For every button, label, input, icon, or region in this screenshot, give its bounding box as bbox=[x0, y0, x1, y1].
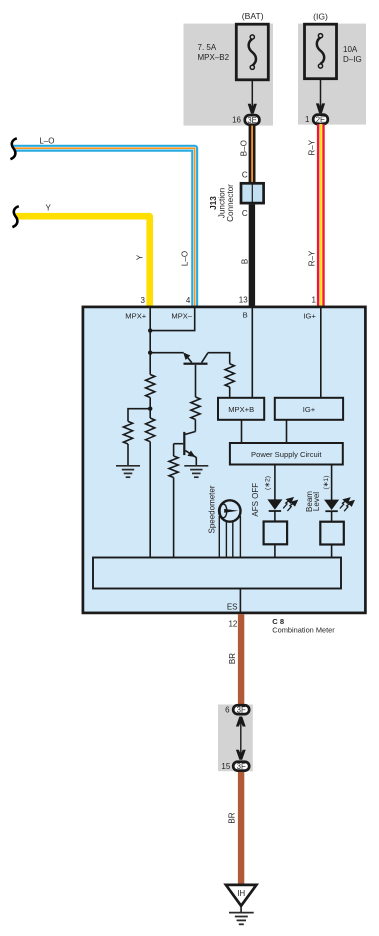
block Power Supply Circuit bbox=[230, 443, 343, 465]
wire ground stem bbox=[240, 906, 242, 912]
wire fuse F2 to connector 2E bbox=[320, 79, 322, 113]
svg-text:Power Supply Circuit: Power Supply Circuit bbox=[251, 450, 322, 459]
svg-text:Combination Meter: Combination Meter bbox=[272, 625, 335, 634]
wire Q1 collector to R4 bbox=[208, 353, 230, 364]
svg-text:R–Y: R–Y bbox=[308, 250, 317, 266]
svg-text:7. 5A: 7. 5A bbox=[198, 43, 217, 52]
speedometer gauge bbox=[219, 500, 240, 521]
svg-text:10A: 10A bbox=[343, 45, 358, 54]
resistor R1 (MPX+ upper) bbox=[146, 375, 155, 398]
wire B internal bbox=[251, 308, 253, 398]
svg-text:13: 13 bbox=[239, 296, 248, 305]
svg-text:IG+: IG+ bbox=[303, 405, 316, 414]
resistor R6 bbox=[169, 456, 178, 478]
ground IH triangle bbox=[226, 885, 257, 906]
wire Q2 base resistor R6 bbox=[173, 444, 175, 456]
node junction dot 1 bbox=[148, 328, 152, 332]
wire MPX+B to power supply bbox=[241, 420, 243, 443]
speedometer legs bbox=[218, 516, 220, 558]
resistor R4 (collector load) bbox=[225, 364, 234, 387]
fuse F2 10A D-IG bbox=[305, 24, 337, 78]
internal bus box bbox=[93, 558, 341, 589]
svg-text:1: 1 bbox=[311, 296, 316, 305]
resistor R2 (MPX+ lower) bbox=[146, 418, 155, 442]
wire IG+ to power supply bbox=[286, 420, 288, 443]
node junction dot 2 bbox=[148, 351, 152, 355]
break symbol Y bbox=[12, 206, 18, 227]
block under D1 bbox=[264, 522, 288, 545]
svg-text:12: 12 bbox=[228, 619, 237, 628]
wire branch to R3 bbox=[128, 409, 150, 422]
wire MPX- entering and joining MPX+ bbox=[150, 308, 195, 331]
wire Y (yellow) bbox=[16, 216, 150, 307]
LED D1 AFS OFF bbox=[267, 499, 282, 509]
wire R-Y (red/yellow) bbox=[317, 124, 325, 307]
svg-text:2E: 2E bbox=[316, 115, 326, 124]
svg-text:ES: ES bbox=[227, 603, 238, 612]
block MPX+B bbox=[218, 398, 264, 420]
wire B (black) J13 to meter bbox=[249, 205, 255, 308]
svg-text:B: B bbox=[243, 310, 248, 319]
svg-text:B: B bbox=[240, 259, 249, 264]
block IG+ bbox=[275, 398, 343, 420]
connector 3F pin 15 bbox=[233, 762, 249, 771]
svg-text:(∗2): (∗2) bbox=[265, 476, 272, 490]
svg-text:3F: 3F bbox=[237, 705, 246, 714]
junction connector J13 bbox=[241, 183, 264, 203]
break symbol L-O bbox=[10, 138, 16, 159]
svg-text:MPX+B: MPX+B bbox=[228, 405, 254, 414]
transistor Q1 bbox=[150, 352, 183, 354]
wire IG+ internal bbox=[320, 308, 322, 398]
relay block 2 (IG fuse holder) bbox=[298, 24, 366, 125]
node junction dot 3 bbox=[148, 407, 152, 411]
svg-text:B–O: B–O bbox=[240, 140, 249, 156]
svg-text:16: 16 bbox=[232, 116, 241, 125]
svg-text:(IG): (IG) bbox=[313, 12, 328, 22]
svg-text:MPX–B2: MPX–B2 bbox=[198, 53, 230, 62]
svg-text:(∗1): (∗1) bbox=[323, 475, 330, 489]
svg-text:Y: Y bbox=[136, 254, 145, 260]
svg-text:4: 4 bbox=[186, 296, 191, 305]
svg-text:3F: 3F bbox=[237, 762, 246, 771]
svg-text:R–Y: R–Y bbox=[308, 139, 317, 155]
svg-text:IG+: IG+ bbox=[303, 311, 316, 320]
connector 3E pin 16 bbox=[245, 115, 260, 125]
relay block 1 (BAT fuse holder) bbox=[184, 24, 274, 126]
wire LED D2 to resistor block bbox=[331, 511, 333, 522]
svg-text:BR: BR bbox=[228, 653, 237, 664]
block under D2 bbox=[320, 522, 344, 545]
LED D2 Beam Level bbox=[324, 500, 339, 510]
svg-text:AFS OFF: AFS OFF bbox=[251, 483, 260, 517]
svg-text:3E: 3E bbox=[247, 116, 257, 125]
wire B-O (black/orange) bbox=[249, 126, 256, 183]
svg-text:MPX–: MPX– bbox=[171, 311, 192, 320]
connector block 3F bbox=[218, 705, 253, 772]
wire to LED D2 bbox=[331, 465, 333, 501]
svg-text:1: 1 bbox=[305, 115, 310, 124]
svg-text:Level: Level bbox=[312, 492, 321, 511]
resistor R3 bbox=[123, 421, 132, 444]
wire BR (brown) bbox=[238, 614, 244, 885]
ground G2 bbox=[184, 465, 208, 467]
svg-text:D–IG: D–IG bbox=[343, 55, 362, 64]
wire ES bbox=[239, 589, 241, 614]
svg-text:Speedometer: Speedometer bbox=[207, 485, 216, 533]
svg-text:L–O: L–O bbox=[181, 251, 190, 266]
wire to LED D1 bbox=[274, 465, 276, 501]
svg-text:IH: IH bbox=[237, 889, 245, 898]
ground symbol IH bbox=[229, 912, 254, 914]
combination meter C8 box bbox=[83, 307, 366, 613]
svg-text:MPX+: MPX+ bbox=[125, 311, 146, 320]
wire L-O (lightblue/orange) bbox=[14, 148, 195, 307]
svg-text:(BAT): (BAT) bbox=[242, 11, 264, 21]
svg-text:BR: BR bbox=[227, 812, 236, 823]
fuse F1 7.5A MPX-B2 bbox=[236, 24, 268, 80]
resistor R5 (Q1 base to Q2) bbox=[191, 397, 200, 420]
svg-text:3: 3 bbox=[140, 296, 145, 305]
transistor Q2 bbox=[183, 432, 185, 455]
wire LED D1 to resistor block bbox=[274, 511, 276, 522]
svg-text:C: C bbox=[242, 171, 248, 180]
svg-text:Connector: Connector bbox=[226, 184, 235, 222]
svg-text:Y: Y bbox=[46, 204, 52, 213]
wire fuse F1 to connector 3E bbox=[251, 80, 253, 113]
wire MPX+ net vertical bbox=[149, 308, 151, 375]
svg-text:L–O: L–O bbox=[39, 137, 54, 146]
connector 3F pin 6 bbox=[233, 705, 249, 714]
connector 2E pin 1 bbox=[313, 115, 328, 125]
svg-text:15: 15 bbox=[221, 762, 230, 771]
svg-text:C: C bbox=[242, 209, 248, 218]
svg-text:6: 6 bbox=[225, 705, 230, 714]
ground G1 bbox=[116, 465, 140, 467]
